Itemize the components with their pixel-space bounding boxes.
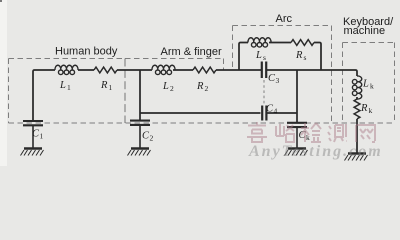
svg-text:L: L (255, 50, 262, 61)
ground below Rk (345, 154, 368, 161)
inductor L2 (152, 65, 175, 74)
svg-text:k: k (369, 106, 373, 115)
svg-text:1: 1 (67, 83, 71, 92)
box Arm & finger (125, 59, 224, 71)
svg-text:s: s (263, 53, 266, 62)
watermark chinese (247, 122, 375, 143)
box Keyboard/machine (343, 43, 395, 124)
svg-text:L: L (162, 81, 169, 92)
svg-text:2: 2 (170, 84, 174, 93)
wire main top rail (33, 70, 357, 121)
svg-text:Arm & finger: Arm & finger (161, 46, 222, 58)
inductor Lk (352, 76, 361, 99)
svg-text:2: 2 (205, 84, 209, 93)
svg-text:1: 1 (40, 132, 44, 141)
capacitor C2 (130, 121, 150, 148)
box Arc (233, 26, 332, 124)
capacitor C3 (262, 62, 266, 79)
wire Lk to Rk (356, 97, 358, 99)
corner mark (0, 0, 2, 2)
capacitor C4 (262, 106, 266, 121)
ground below Ck (285, 149, 308, 156)
capacitor C1 (23, 121, 43, 148)
resistor R1 (94, 67, 117, 73)
svg-text:L: L (59, 80, 66, 91)
page left margin (0, 0, 7, 166)
svg-text:machine: machine (344, 25, 386, 37)
resistor Rs (291, 40, 314, 46)
wire C2 branch (139, 70, 141, 120)
svg-text:2: 2 (150, 134, 154, 143)
svg-text:L: L (362, 79, 369, 90)
svg-text:1: 1 (109, 83, 113, 92)
box divider Human body / Arm & finger (124, 59, 126, 124)
ground below C1 (21, 149, 44, 156)
dashed link C3 to C4 (263, 80, 265, 104)
svg-text:AnyTesting.com: AnyTesting.com (248, 143, 383, 160)
inductor Ls (248, 38, 271, 47)
ground below C2 (128, 149, 151, 156)
svg-text:Human body: Human body (55, 45, 118, 57)
svg-text:R: R (196, 81, 204, 92)
wire Ck branch (296, 70, 298, 123)
svg-text:R: R (295, 50, 303, 61)
svg-text:s: s (304, 53, 307, 62)
resistor Rk (354, 99, 360, 119)
svg-text:3: 3 (276, 76, 280, 85)
svg-text:R: R (100, 80, 108, 91)
capacitor Ck (287, 123, 307, 148)
svg-text:4: 4 (274, 107, 278, 116)
box Human body (9, 59, 126, 124)
wire arc loop (239, 43, 321, 71)
dashed bottom line (9, 122, 395, 124)
wire lower rail (140, 112, 297, 114)
svg-text:Arc: Arc (276, 13, 293, 25)
svg-text:k: k (370, 82, 374, 91)
resistor R2 (193, 67, 216, 73)
wire Rk to ground (356, 119, 358, 153)
svg-text:R: R (360, 103, 368, 114)
inductor L1 (55, 65, 78, 74)
